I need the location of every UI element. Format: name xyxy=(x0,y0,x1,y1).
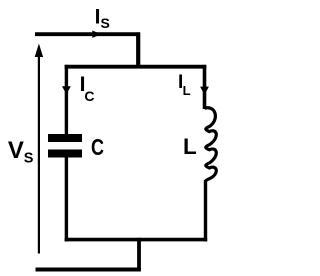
source arrow VS head xyxy=(35,44,43,58)
svg-text:S: S xyxy=(24,151,34,167)
svg-text:V: V xyxy=(8,137,24,164)
wire step vertical xyxy=(137,238,141,270)
wire top rail xyxy=(65,65,207,69)
wire right branch lower xyxy=(204,180,207,242)
wire left branch upper xyxy=(65,65,68,135)
svg-text:L: L xyxy=(183,83,191,98)
svg-text:L: L xyxy=(183,134,197,159)
svg-text:S: S xyxy=(101,15,110,31)
current arrow IL head xyxy=(200,87,209,95)
inductor L coil xyxy=(205,108,217,181)
wire top feed horizontal xyxy=(35,32,140,36)
current arrow IS head xyxy=(92,31,101,38)
wire left branch lower xyxy=(65,157,68,242)
wire bottom feed xyxy=(36,268,141,272)
current arrow IC head xyxy=(62,86,71,94)
wire feed vertical drop xyxy=(136,32,140,67)
wire bottom rail xyxy=(65,238,208,242)
capacitor C top plate xyxy=(48,134,82,142)
source arrow VS shaft xyxy=(38,55,40,254)
capacitor C bottom plate xyxy=(48,150,82,158)
svg-text:C: C xyxy=(84,88,94,104)
wire right branch upper xyxy=(203,65,207,109)
svg-text:C: C xyxy=(91,134,104,160)
